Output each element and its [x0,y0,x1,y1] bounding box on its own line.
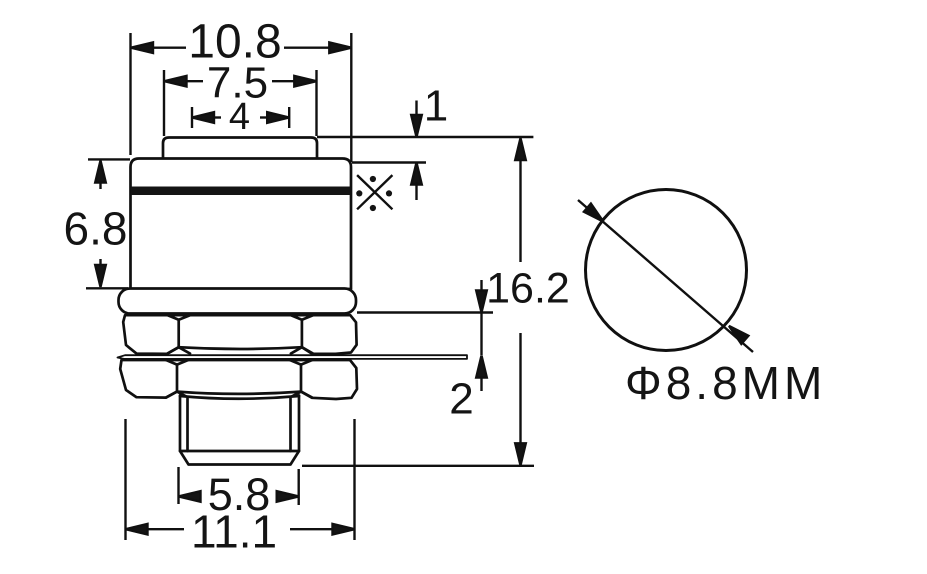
dim 10.8 line with arrows [131,42,351,53]
svg-text:16.2: 16.2 [486,265,570,313]
stem-bottom extension line [302,465,534,467]
dim 5.8 text [208,469,271,520]
svg-text:11.1: 11.1 [191,506,277,558]
black band on body [131,187,350,196]
cap-top extension line [317,136,533,138]
dim 11.1 text [191,506,277,558]
panel washer (thin plate extending right) [118,355,468,359]
hex nut 1 (upper) [123,315,356,354]
dim 5.8 extension lines [179,467,299,505]
dim 7.5 extension lines [164,70,317,136]
reference mark ※ [356,175,392,211]
switch body [131,159,352,290]
dim 6.8 text [64,203,128,255]
dim 6.8 extension lines [86,159,130,288]
dim 7.5 text [207,59,268,108]
dim 4 text [229,96,250,138]
top view circle [586,190,747,351]
dim 2 text [449,375,473,424]
dim 5.8 arrows [179,491,299,502]
dim 1 vertical with arrows [411,101,422,201]
diameter label [625,357,826,409]
button cap (plunger) [163,138,317,159]
dim 10.8 text [188,16,281,69]
dim 4 arrows [192,112,289,123]
diameter line with arrows [578,200,753,352]
dim 7.5 line with arrows [165,76,317,87]
svg-text:6.8: 6.8 [64,203,128,255]
dim 2 vertical with arrows [476,280,487,391]
dim 6.8 arrows [95,161,106,288]
svg-text:Φ8.8MM: Φ8.8MM [625,357,826,409]
dim 16.2 vertical line with arrows [515,138,526,465]
dimension graphics [64,16,827,558]
dim 16.2 text [486,265,570,313]
collar-bottom extension line [357,311,493,313]
dim 11.1 line with arrows [126,524,355,535]
dim 1 text [424,82,448,131]
dim 10.8 extension lines [131,33,352,162]
svg-text:4: 4 [229,96,250,138]
mounting collar [119,289,357,314]
svg-text:2: 2 [449,375,473,424]
dim 4 ticks [192,107,289,128]
svg-text:1: 1 [424,82,448,131]
body-top extension line [352,161,426,163]
dim 11.1 extension lines [126,419,355,540]
hex nut 2 (lower) [120,360,357,399]
threaded stem [180,396,299,465]
